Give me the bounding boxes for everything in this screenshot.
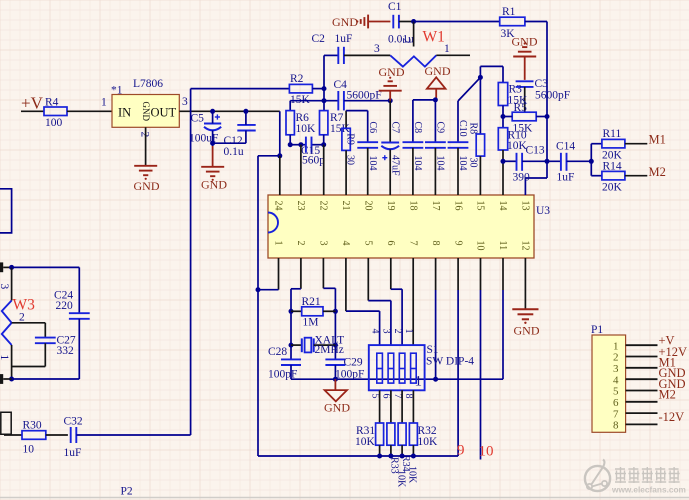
svg-text:C28: C28 xyxy=(268,346,287,358)
wire R2 right to C2 node xyxy=(312,55,326,110)
svg-text:24: 24 xyxy=(273,201,284,211)
svg-text:1: 1 xyxy=(613,340,619,352)
resistor R11 20K xyxy=(591,128,625,162)
regulator L7806 xyxy=(111,78,179,127)
capacitor C29 100pF xyxy=(325,357,364,381)
svg-text:1: 1 xyxy=(415,374,423,390)
svg-text:100: 100 xyxy=(45,117,63,129)
crystal XALT 2MHz xyxy=(291,335,344,357)
connector stub rectangle at left edge (cut off) xyxy=(1,412,11,434)
svg-text:U3: U3 xyxy=(536,205,550,217)
svg-text:R9: R9 xyxy=(345,133,356,145)
wire R2 net horizontal y=88.6 xyxy=(191,88,290,90)
svg-text:P2: P2 xyxy=(121,486,133,498)
svg-text:C1: C1 xyxy=(388,1,402,13)
wire IC pin22 stub xyxy=(323,145,325,195)
svg-text:C10: C10 xyxy=(457,120,468,137)
svg-text:OUT: OUT xyxy=(151,106,177,120)
svg-text:5600pF: 5600pF xyxy=(535,90,570,102)
potentiometer W3 xyxy=(0,267,35,379)
wire net +6V (L7806 OUT to IC pin24) xyxy=(179,96,282,158)
capacitor C28 100pF xyxy=(268,346,301,381)
svg-text:R8: R8 xyxy=(467,123,478,135)
svg-text:10K: 10K xyxy=(296,123,317,135)
svg-text:13: 13 xyxy=(520,201,531,211)
wire C4 right to GND stem node xyxy=(344,98,393,103)
svg-text:2: 2 xyxy=(392,329,403,334)
svg-text:6: 6 xyxy=(613,397,619,409)
wire W3 bottom rail xyxy=(9,377,79,382)
bottom border line (decor) xyxy=(0,497,689,499)
svg-text:220: 220 xyxy=(56,300,74,312)
IC U3 pin numbers xyxy=(273,201,531,251)
svg-text:390: 390 xyxy=(513,172,531,184)
wire R4 to U regulator pin1 xyxy=(67,97,112,112)
svg-text:M2: M2 xyxy=(659,387,676,401)
svg-text:C32: C32 xyxy=(64,416,83,428)
wire long vertical bus x=258 xyxy=(257,156,259,456)
svg-text:C13: C13 xyxy=(526,145,545,157)
svg-text:19: 19 xyxy=(385,201,396,211)
wire IC pin9 to bottom rail xyxy=(457,258,459,456)
svg-text:30: 30 xyxy=(467,158,478,168)
capacitor C13 390 xyxy=(503,145,545,184)
svg-text:1: 1 xyxy=(403,329,414,334)
wire R9 top to C6 top xyxy=(346,110,368,112)
wire IC pin7 to S1 xyxy=(412,258,414,345)
wire R11 to M1 xyxy=(625,143,647,145)
svg-text:+V: +V xyxy=(21,94,44,113)
svg-text:2: 2 xyxy=(139,132,151,138)
pin tick at left edge node 3 of W3 xyxy=(0,262,3,272)
svg-text:SW DIP-4: SW DIP-4 xyxy=(426,356,474,368)
svg-text:1uF: 1uF xyxy=(335,33,353,45)
svg-text:C29: C29 xyxy=(344,357,363,369)
capacitor C9 104 xyxy=(425,122,446,171)
svg-text:3: 3 xyxy=(381,329,392,334)
svg-text:2: 2 xyxy=(613,352,619,364)
svg-text:R11: R11 xyxy=(603,128,622,140)
svg-text:*1: *1 xyxy=(111,85,123,97)
svg-text:8: 8 xyxy=(613,420,619,432)
svg-text:1: 1 xyxy=(273,241,284,246)
wire C14 to output node xyxy=(567,144,594,176)
capacitor C8 104 xyxy=(403,122,424,171)
ground left of C1 (rotated) xyxy=(332,15,390,29)
wire IC pin8 to S1 right node xyxy=(435,258,437,379)
svg-text:3: 3 xyxy=(374,43,380,55)
wire IC pin3 jog to crystal right column xyxy=(323,258,338,360)
wire pin13 jog xyxy=(525,178,547,195)
svg-text:R1: R1 xyxy=(502,6,516,18)
resistor R5 15K xyxy=(512,102,536,135)
svg-text:4: 4 xyxy=(369,329,380,334)
resistor R6 10K xyxy=(286,101,316,135)
svg-text:R14: R14 xyxy=(603,161,622,173)
wire C15 rail y=144.7 xyxy=(288,135,327,147)
svg-text:C5: C5 xyxy=(191,113,205,125)
resistor R9 30 xyxy=(342,111,356,165)
ground triangle under crystal xyxy=(324,379,350,414)
ground under C5 xyxy=(201,167,227,192)
svg-text:S1: S1 xyxy=(427,344,439,356)
wire C2 to W1 pin3 xyxy=(344,43,390,55)
capacitor C7 47uF polarized xyxy=(381,101,400,176)
wire L7806 pin2 to GND xyxy=(145,127,147,165)
svg-text:M1: M1 xyxy=(649,133,666,147)
svg-text:10: 10 xyxy=(479,444,494,460)
potentiometer W1 xyxy=(390,22,445,67)
svg-text:6: 6 xyxy=(385,241,396,246)
svg-text:22: 22 xyxy=(318,201,329,211)
ground under L7806 xyxy=(134,166,160,193)
svg-text:GND: GND xyxy=(514,324,540,338)
svg-text:3: 3 xyxy=(0,284,10,290)
wire W1 pin1 stub xyxy=(436,43,470,55)
svg-text:C9: C9 xyxy=(435,122,446,134)
wire feedback bus vertical x=190.6 xyxy=(190,89,192,435)
svg-text:12: 12 xyxy=(520,241,531,251)
svg-text:4: 4 xyxy=(613,374,619,386)
wire C32 to feedback bus xyxy=(76,434,190,436)
switch S1 SW DIP-4 xyxy=(369,344,474,390)
svg-text:5: 5 xyxy=(613,386,619,398)
wire gnd jog to pin18/pin17 columns xyxy=(413,97,438,142)
svg-text:16: 16 xyxy=(452,201,463,211)
wire IC pin24 stub xyxy=(279,156,281,195)
svg-text:3: 3 xyxy=(318,241,329,246)
wire IC pin15 stub xyxy=(479,156,481,195)
svg-text:GND: GND xyxy=(332,15,358,29)
svg-text:GND: GND xyxy=(425,64,451,78)
resistor R4 xyxy=(44,97,67,130)
svg-text:GND: GND xyxy=(141,102,151,122)
svg-text:7: 7 xyxy=(407,241,418,246)
svg-text:C3: C3 xyxy=(535,78,549,90)
svg-text:0.1u: 0.1u xyxy=(224,146,244,158)
wire R14 to M2 xyxy=(625,175,647,177)
capacitor C15 560p xyxy=(301,137,325,167)
wire R5 right xyxy=(536,116,547,118)
svg-text:21: 21 xyxy=(340,201,351,211)
wire IC pin1 to left bus xyxy=(256,258,279,292)
capacitor C12 0.1u xyxy=(224,111,256,158)
wire IC pin14 stub xyxy=(501,150,506,195)
wire IC pin20 stub xyxy=(367,148,369,195)
svg-text:9: 9 xyxy=(452,241,463,246)
svg-text:2: 2 xyxy=(400,38,412,44)
ground above C3 xyxy=(512,35,538,80)
resistor R3 15K xyxy=(498,83,528,107)
wire tick to W3 top node xyxy=(3,265,14,270)
svg-text:GND: GND xyxy=(134,179,160,193)
wire IC pin6 jog to S1 xyxy=(391,258,402,345)
capacitor C5 100uF polarized xyxy=(189,111,221,144)
wire C4 net horizontal y=100.7 xyxy=(290,100,338,102)
wire C3 to R5 xyxy=(524,87,526,112)
wire IC pin10 stub xyxy=(480,258,482,460)
svg-text:2: 2 xyxy=(295,241,306,246)
svg-text:R5: R5 xyxy=(514,102,528,114)
capacitor C1 0.01u xyxy=(388,1,414,46)
capacitor C6 104 xyxy=(357,111,378,171)
wire jog to long left bus xyxy=(258,155,280,157)
resistor R34 10K xyxy=(398,423,418,484)
svg-text:10K: 10K xyxy=(507,140,528,152)
wire R5 left xyxy=(503,116,512,118)
capacitor C24 220 xyxy=(54,267,90,379)
svg-text:20K: 20K xyxy=(602,182,623,194)
wire C1 to node / wiper xyxy=(399,19,416,24)
svg-text:18: 18 xyxy=(407,201,418,211)
resistor R1 3K xyxy=(500,6,525,40)
svg-text:1: 1 xyxy=(0,355,10,361)
svg-text:20: 20 xyxy=(363,201,374,211)
capacitor C27 332 xyxy=(35,335,76,358)
wire W3 top rail xyxy=(12,266,80,268)
svg-text:C8: C8 xyxy=(412,122,423,134)
wire IC pin19 stub xyxy=(389,149,391,195)
svg-text:GND: GND xyxy=(201,178,227,192)
ground under IC pin12 xyxy=(512,309,540,337)
svg-text:P1: P1 xyxy=(591,324,603,336)
pin tick at left edge node 1 of W3 xyxy=(0,374,3,384)
wire C1 node to R1 xyxy=(414,21,500,23)
svg-text:www.elecfans.com: www.elecfans.com xyxy=(611,485,686,495)
wire crystal caps bottom rail to S1 and pin11 xyxy=(291,365,503,382)
svg-text:3: 3 xyxy=(613,363,619,375)
wire diagonal pin16 to pin15 node xyxy=(458,75,483,101)
svg-text:1: 1 xyxy=(101,97,107,109)
resistor R14 20K xyxy=(591,161,625,194)
wire R1 right to pin13 bus xyxy=(525,22,550,179)
svg-text:W1: W1 xyxy=(423,29,445,46)
svg-text:8: 8 xyxy=(430,241,441,246)
svg-text:9: 9 xyxy=(457,443,465,459)
svg-text:1uF: 1uF xyxy=(64,447,82,459)
svg-text:7: 7 xyxy=(613,408,619,420)
svg-text:10K: 10K xyxy=(395,470,406,488)
resistor R32 10K xyxy=(409,423,438,448)
svg-text:C4: C4 xyxy=(334,79,348,91)
capacitor C10 104 xyxy=(448,101,469,171)
svg-text:-12V: -12V xyxy=(659,410,685,424)
svg-text:L7806: L7806 xyxy=(133,78,163,90)
wire IC pin11 jog to S1 node xyxy=(502,258,504,379)
resistor R8 30 xyxy=(467,77,484,167)
svg-text:17: 17 xyxy=(430,201,441,211)
IC U3 24-pin body xyxy=(268,195,550,258)
svg-text:4: 4 xyxy=(340,241,351,246)
capacitor C2 1uF xyxy=(312,33,353,64)
svg-text:23: 23 xyxy=(295,201,306,211)
svg-text:10K: 10K xyxy=(355,436,376,448)
capacitor C3 5600pF xyxy=(516,78,571,102)
svg-text:5: 5 xyxy=(363,241,374,246)
wire R3 to R10 node xyxy=(501,106,506,128)
svg-text:3: 3 xyxy=(182,96,188,108)
capacitor C32 1uF xyxy=(46,416,83,460)
svg-text:IN: IN xyxy=(118,106,131,120)
resistor R31 10K xyxy=(355,423,384,448)
connector P1 xyxy=(591,324,658,432)
capacitor C4 5600pF xyxy=(334,79,382,110)
svg-text:GND: GND xyxy=(512,35,538,49)
svg-text:2MHz: 2MHz xyxy=(315,344,344,356)
wire IC pin5 jog to S1 xyxy=(368,258,391,345)
svg-text:1uF: 1uF xyxy=(557,172,575,184)
wire pin15 node jog to R3 xyxy=(480,66,503,82)
wire C27 bottom to left rail xyxy=(12,343,46,366)
svg-text:560p: 560p xyxy=(302,155,325,167)
svg-text:10K: 10K xyxy=(407,466,418,484)
capacitor C14 1uF xyxy=(556,141,575,184)
wire IC pin4 jog to S1 xyxy=(346,258,380,345)
wire IC pin16 stub xyxy=(457,148,459,195)
watermark logo (decor) xyxy=(585,460,610,492)
svg-text:5600pF: 5600pF xyxy=(347,90,382,102)
wire IC pin21 stub xyxy=(345,150,347,195)
svg-text:15: 15 xyxy=(475,201,486,211)
svg-text:1: 1 xyxy=(444,43,450,55)
svg-text:GND: GND xyxy=(379,65,405,79)
wires S1 bottom to resistors xyxy=(380,390,414,423)
resistor R2 15K xyxy=(289,73,312,106)
svg-text:C6: C6 xyxy=(367,122,378,134)
svg-text:C2: C2 xyxy=(312,33,326,45)
svg-text:R21: R21 xyxy=(302,296,321,308)
wire W3 wiper pin2 xyxy=(12,323,46,338)
svg-text:M2: M2 xyxy=(649,165,666,179)
wire C13 to C14 xyxy=(522,160,561,162)
wire IC pin18 stub xyxy=(412,148,414,195)
svg-text:R30: R30 xyxy=(23,420,42,432)
svg-text:2: 2 xyxy=(19,312,25,324)
wire IC pin17 stub xyxy=(434,148,436,195)
resistor R30 10 xyxy=(4,420,46,456)
svg-text:11: 11 xyxy=(497,241,508,251)
svg-text:14: 14 xyxy=(497,201,508,211)
S1 pin numbers xyxy=(369,329,414,399)
svg-text:C14: C14 xyxy=(556,141,575,153)
wire C5 to GND node xyxy=(210,130,215,166)
svg-text:R2: R2 xyxy=(290,73,304,85)
wire C12 bottom to C5/GND node xyxy=(213,131,246,144)
svg-text:C7: C7 xyxy=(389,122,400,134)
wire +V to R4 xyxy=(21,110,44,112)
svg-text:10: 10 xyxy=(475,241,486,251)
wire IC pin12 to GND xyxy=(524,258,526,309)
wire bottom rail y=456 xyxy=(258,445,458,458)
svg-text:R4: R4 xyxy=(45,97,59,109)
resistor R7 15K xyxy=(320,111,351,135)
svg-text:1M: 1M xyxy=(303,317,319,329)
resistor R10 10K xyxy=(498,128,527,152)
svg-text:10K: 10K xyxy=(418,436,439,448)
svg-text:332: 332 xyxy=(57,345,75,357)
connector stub rectangle upper-left (cut off) xyxy=(0,189,12,233)
wire IC pin2 jog to crystal left column xyxy=(289,258,301,360)
resistor R33 10K xyxy=(387,423,406,488)
wire IC pin23 stub xyxy=(300,145,302,195)
resistor R21 1M xyxy=(291,296,335,329)
ground triangle under W1 right xyxy=(425,64,451,100)
svg-text:10: 10 xyxy=(23,444,35,456)
svg-text:GND: GND xyxy=(324,401,350,415)
ground under W1 left (pin19 net) xyxy=(379,65,405,101)
